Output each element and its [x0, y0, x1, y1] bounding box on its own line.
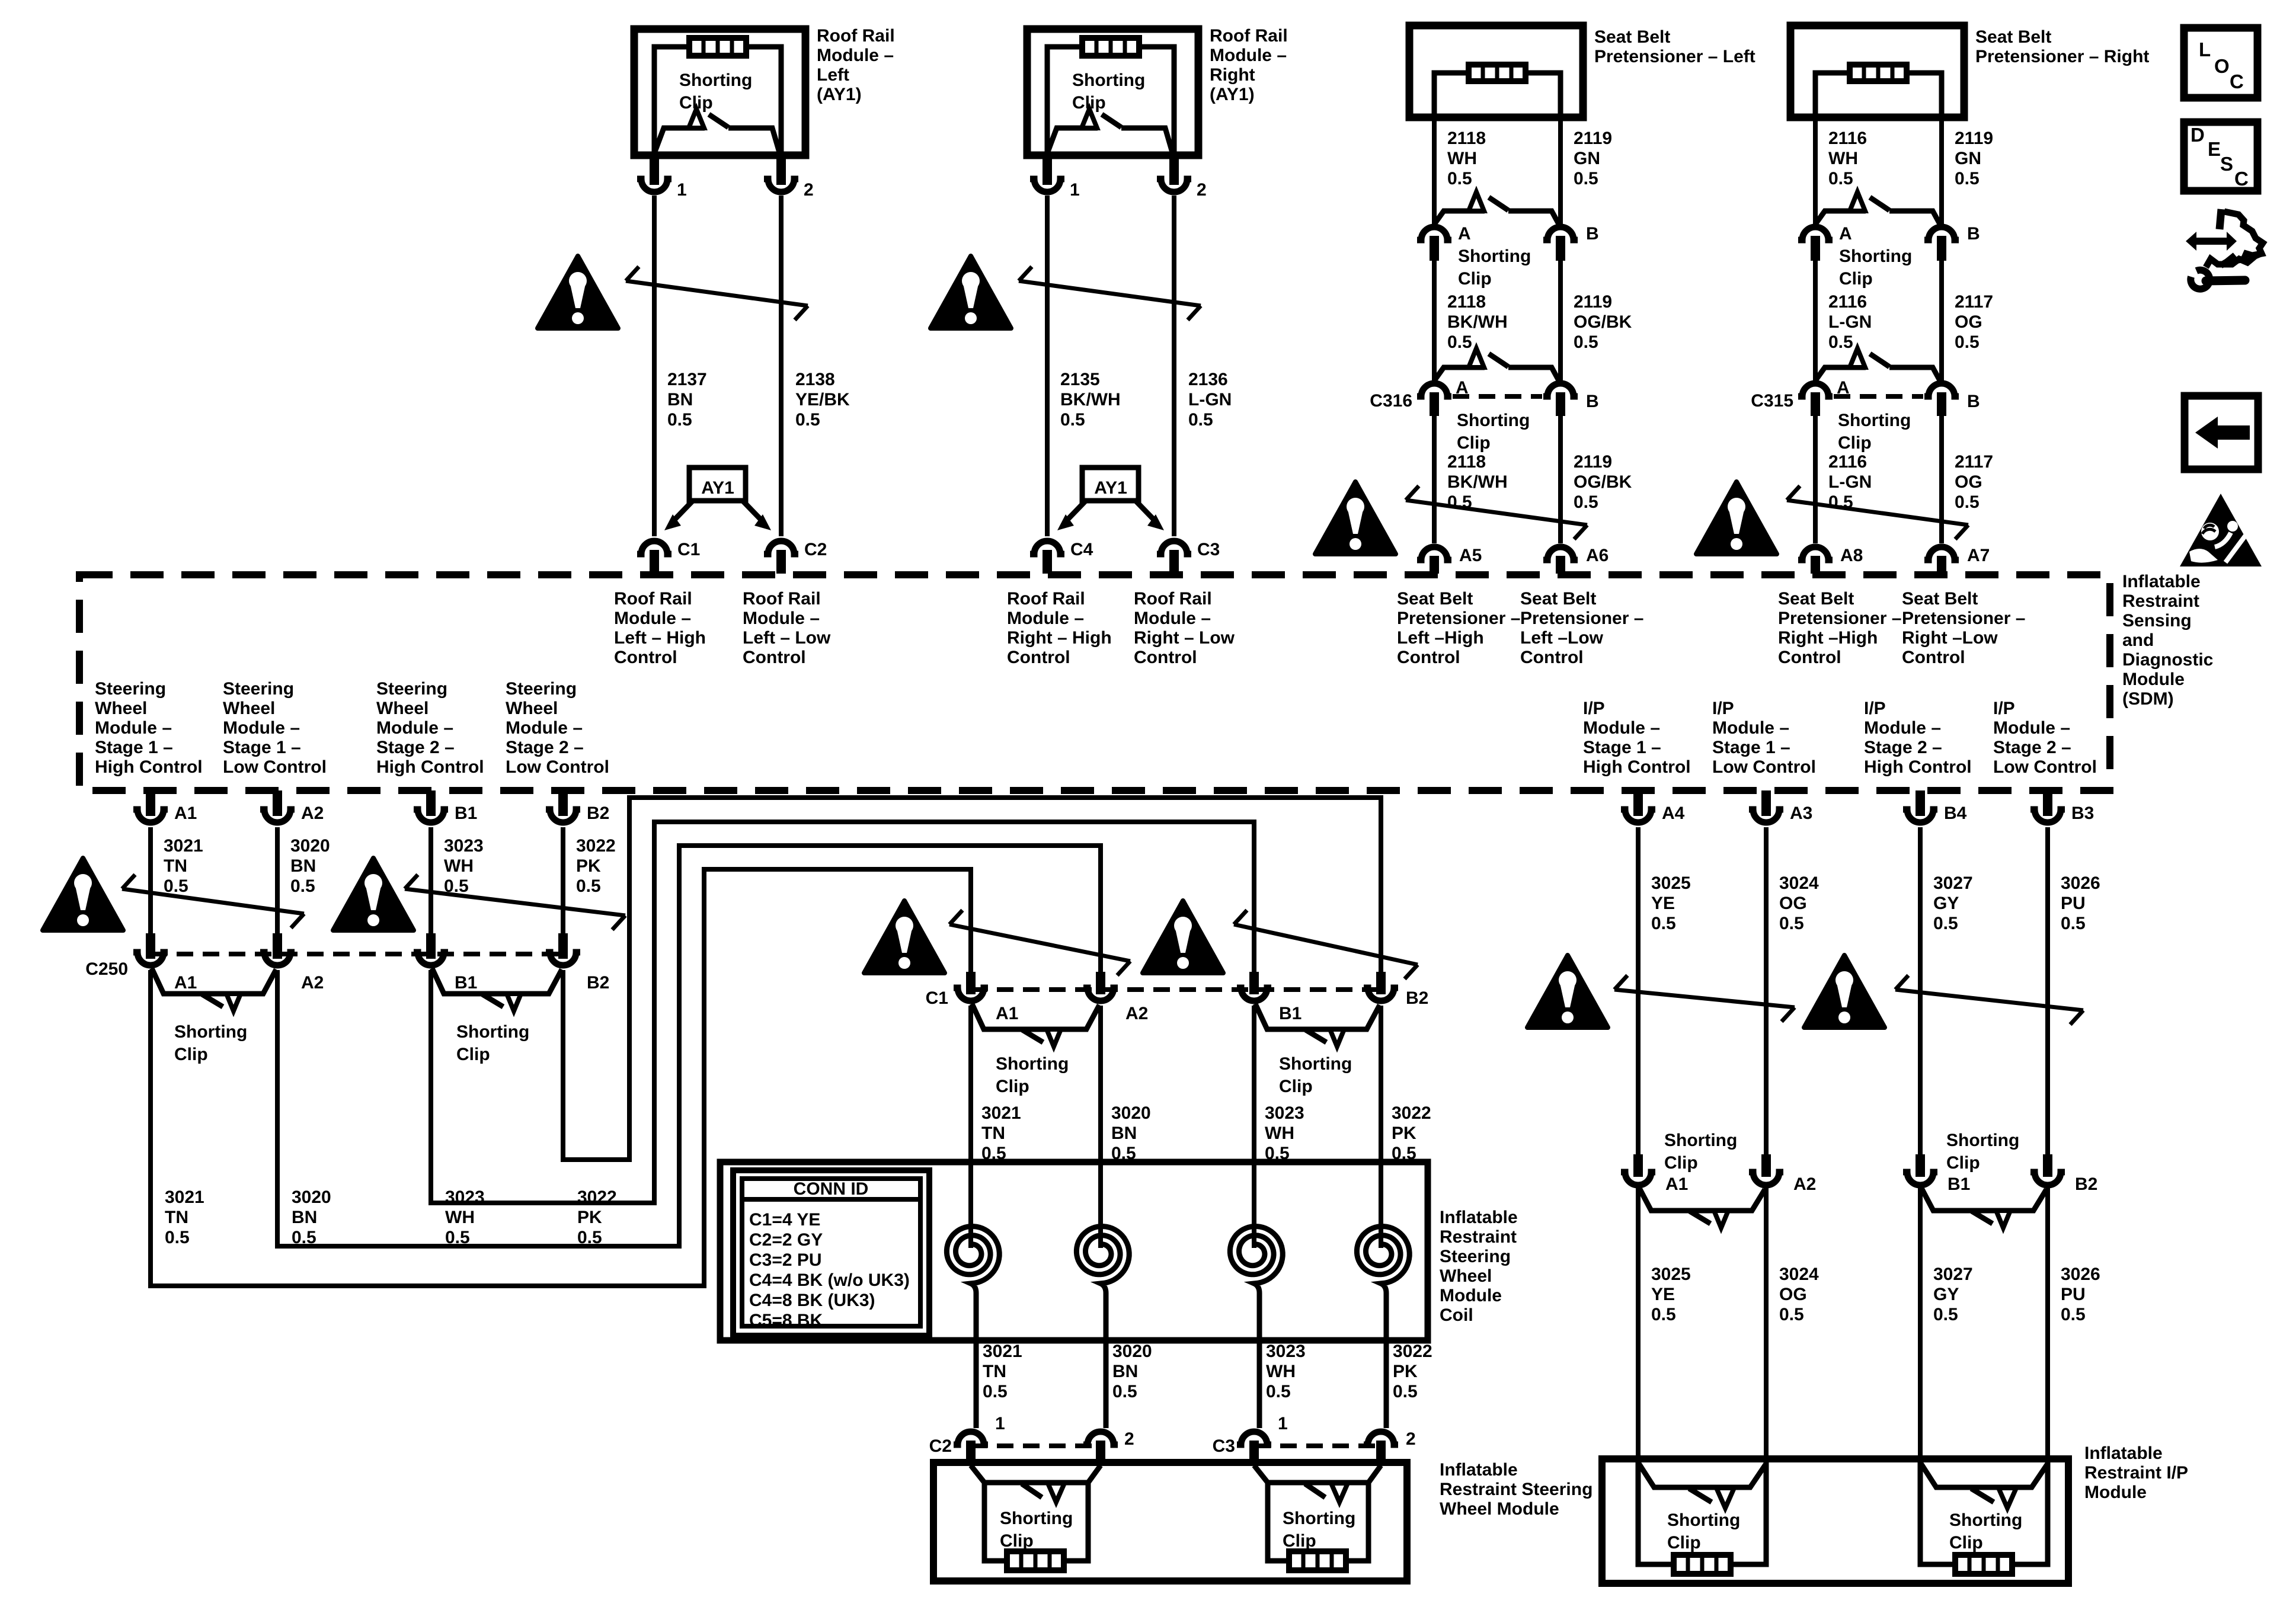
svg-text:0.5: 0.5: [2061, 914, 2086, 933]
svg-text:Steering: Steering: [1440, 1247, 1511, 1266]
svg-text:Shorting: Shorting: [1664, 1131, 1737, 1150]
svg-text:Right –Low: Right –Low: [1902, 628, 1998, 648]
svg-text:A1: A1: [174, 973, 197, 993]
svg-text:S: S: [2220, 153, 2233, 175]
svg-text:B1: B1: [455, 973, 477, 993]
svg-text:C2: C2: [929, 1436, 952, 1456]
svg-text:3021: 3021: [983, 1342, 1022, 1361]
svg-text:Control: Control: [614, 648, 677, 667]
svg-text:3021: 3021: [981, 1103, 1021, 1123]
svg-text:2119: 2119: [1574, 292, 1612, 312]
svg-text:Shorting: Shorting: [174, 1022, 247, 1042]
wire label 3022 below coil: [1393, 1342, 1432, 1449]
svg-text:B: B: [1967, 224, 1980, 244]
svg-text:BN: BN: [667, 390, 693, 409]
svg-text:C250: C250: [85, 959, 128, 979]
svg-text:Module –: Module –: [1993, 718, 2070, 738]
svg-text:Clip: Clip: [1839, 269, 1873, 289]
svg-text:2118: 2118: [1447, 452, 1486, 472]
svg-text:3023: 3023: [1266, 1342, 1306, 1361]
svg-text:Diagnostic: Diagnostic: [2122, 650, 2213, 670]
svg-text:WH: WH: [1828, 149, 1858, 168]
svg-text:B: B: [1967, 392, 1980, 411]
wire label 3020 below C250: [292, 1188, 331, 1247]
wire label 3021 below C250: [165, 1188, 204, 1247]
connector C250 dashed line: [151, 952, 563, 956]
svg-text:C1: C1: [926, 988, 948, 1008]
svg-text:WH: WH: [1447, 149, 1477, 168]
svg-text:2137: 2137: [667, 370, 707, 389]
svg-text:A6: A6: [1586, 546, 1609, 565]
svg-text:3024: 3024: [1779, 873, 1819, 893]
SDM bottom pin B2: [546, 790, 609, 823]
svg-text:B1: B1: [1279, 1004, 1302, 1023]
svg-text:3026: 3026: [2061, 1265, 2100, 1284]
svg-text:B3: B3: [2071, 804, 2094, 823]
svg-text:YE: YE: [1651, 894, 1675, 913]
svg-text:BN: BN: [292, 1208, 317, 1227]
svg-text:Seat Belt: Seat Belt: [1520, 589, 1596, 609]
svg-text:Steering: Steering: [223, 679, 294, 699]
wire 3022 from C1 into coil: [1381, 1006, 1431, 1225]
svg-text:Left – Low: Left – Low: [743, 628, 831, 648]
svg-text:Control: Control: [1902, 648, 1965, 667]
svg-text:0.5: 0.5: [795, 410, 820, 430]
svg-text:C1=4 YE: C1=4 YE: [749, 1210, 820, 1230]
wire 3021 from C1 into coil: [971, 1006, 1021, 1225]
connector cup at steering wheel module pin x=1638: [954, 1432, 988, 1466]
svg-text:B2: B2: [1406, 988, 1428, 1008]
svg-text:1: 1: [1278, 1414, 1288, 1433]
svg-text:B2: B2: [587, 973, 609, 993]
svg-text:Module –: Module –: [1007, 609, 1084, 628]
svg-text:YE: YE: [1651, 1285, 1675, 1304]
svg-text:OG/BK: OG/BK: [1574, 472, 1632, 492]
svg-text:Right – High: Right – High: [1007, 628, 1112, 648]
SDM bottom pin A4: [1621, 790, 1685, 823]
twisted-pair slash steering wheel stage 2: [405, 875, 625, 930]
svg-text:0.5: 0.5: [1574, 492, 1598, 512]
svg-text:Clip: Clip: [1946, 1153, 1980, 1173]
svg-text:3027: 3027: [1933, 1265, 1973, 1284]
svg-text:Seat Belt: Seat Belt: [1975, 27, 2051, 47]
svg-text:Clip: Clip: [174, 1045, 208, 1064]
connector C2 dashed line: [971, 1443, 1101, 1448]
SDM input label at x=3209: [1902, 589, 2025, 667]
svg-text:Wheel: Wheel: [506, 699, 558, 718]
svg-text:A2: A2: [301, 973, 324, 993]
svg-text:Clip: Clip: [1458, 269, 1492, 289]
svg-text:C1: C1: [677, 540, 700, 559]
svg-text:Clip: Clip: [679, 93, 713, 113]
svg-text:Clip: Clip: [1283, 1531, 1316, 1551]
svg-text:2117: 2117: [1955, 292, 1993, 312]
svg-text:Low Control: Low Control: [1712, 757, 1816, 777]
svg-text:High Control: High Control: [95, 757, 203, 777]
wire 3022 from SDM to C250: [558, 827, 616, 959]
wire label 3023 below coil: [1266, 1342, 1306, 1433]
svg-text:Shorting: Shorting: [1072, 71, 1145, 90]
wire 3020 from SDM to C250: [273, 827, 330, 959]
svg-text:Shorting: Shorting: [1838, 411, 1911, 430]
svg-text:Shorting: Shorting: [1949, 1510, 2022, 1530]
wire label 3020 below coil: [1112, 1342, 1152, 1449]
coil 1 spiral: [946, 1221, 999, 1428]
svg-text:2138: 2138: [795, 370, 835, 389]
svg-text:2116: 2116: [1828, 292, 1867, 312]
wire 3020 BN routed from C250 to coil connector: [277, 846, 1105, 1246]
svg-text:C2=2 GY: C2=2 GY: [749, 1230, 823, 1250]
connector C1 pin B2: [1364, 988, 1428, 1008]
svg-text:2118: 2118: [1447, 129, 1486, 148]
SDM output label at x=160: [95, 679, 203, 777]
svg-text:OG: OG: [1955, 312, 1982, 332]
svg-text:I/P: I/P: [1583, 699, 1605, 718]
svg-text:Wheel Module: Wheel Module: [1440, 1499, 1559, 1519]
svg-text:O: O: [2214, 55, 2230, 77]
I/P inline connector pin A2: [1749, 1172, 1816, 1194]
svg-text:0.5: 0.5: [1266, 1382, 1291, 1401]
warning triangle coil C1 pair A: [864, 901, 945, 973]
svg-text:0.5: 0.5: [1447, 169, 1472, 188]
svg-text:0.5: 0.5: [1779, 1305, 1804, 1324]
svg-text:Left –Low: Left –Low: [1520, 628, 1604, 648]
svg-text:Left: Left: [817, 65, 849, 85]
svg-text:GN: GN: [1574, 149, 1600, 168]
svg-text:A5: A5: [1459, 546, 1482, 565]
svg-text:Control: Control: [1397, 648, 1460, 667]
svg-text:Wheel: Wheel: [1440, 1266, 1492, 1286]
svg-text:0.5: 0.5: [1447, 332, 1472, 352]
svg-text:TN: TN: [164, 856, 187, 876]
svg-text:Left – High: Left – High: [614, 628, 706, 648]
svg-text:Pretensioner –: Pretensioner –: [1778, 609, 1901, 628]
icon DESC box: [2184, 122, 2257, 191]
svg-text:Pretensioner –: Pretensioner –: [1397, 609, 1520, 628]
warning triangle I/P stage 2: [1804, 955, 1885, 1028]
shorting clip below I/P pins A1-A2: [1639, 1188, 1765, 1228]
svg-text:Stage 1 –: Stage 1 –: [95, 738, 173, 757]
svg-text:Pretensioner –: Pretensioner –: [1520, 609, 1643, 628]
connector cup at steering wheel module pin x=2116: [1237, 1432, 1271, 1466]
svg-text:Steering: Steering: [95, 679, 166, 699]
warning triangle pretensioner right: [1696, 482, 1777, 554]
wire 3025 from SDM to I/P connector: [1633, 827, 1691, 1177]
SDM input label at x=3000: [1778, 589, 1901, 667]
svg-text:Control: Control: [743, 648, 806, 667]
coil 4 spiral: [1357, 1221, 1409, 1428]
module Roof Rail Left (AY1) with shorting clip and squib: [634, 29, 850, 574]
svg-text:Sensing: Sensing: [2122, 611, 2192, 630]
svg-text:3022: 3022: [1393, 1342, 1432, 1361]
svg-text:BN: BN: [1111, 1124, 1137, 1143]
svg-text:C316: C316: [1370, 391, 1412, 411]
svg-text:B2: B2: [2075, 1174, 2097, 1194]
svg-text:Module –: Module –: [1712, 718, 1789, 738]
wire 3020 from C1 into coil: [1101, 1006, 1151, 1225]
svg-text:Stage 2 –: Stage 2 –: [506, 738, 584, 757]
svg-text:Inflatable: Inflatable: [2084, 1443, 2163, 1463]
svg-text:Inflatable: Inflatable: [1440, 1208, 1518, 1227]
svg-text:OG: OG: [1955, 472, 1982, 492]
warning triangle coil pair B: [1143, 901, 1223, 973]
svg-text:Clip: Clip: [456, 1045, 490, 1064]
icon harness routing with wrench: [2186, 209, 2263, 289]
svg-text:AY1: AY1: [701, 478, 734, 498]
svg-text:3022: 3022: [1392, 1103, 1431, 1123]
svg-text:Right: Right: [1210, 65, 1255, 85]
svg-text:Clip: Clip: [1279, 1077, 1313, 1096]
svg-text:Module –: Module –: [95, 718, 172, 738]
svg-text:3025: 3025: [1651, 873, 1691, 893]
warning triangle roof rail left: [538, 256, 618, 328]
connector C1 pin B1: [1237, 988, 1302, 1023]
svg-text:Low Control: Low Control: [1993, 757, 2097, 777]
Inflatable Restraint Steering Wheel Module Coil box: [720, 1162, 1428, 1340]
svg-text:0.5: 0.5: [1828, 332, 1853, 352]
Inflatable Restraint Steering Wheel Module box: [933, 1462, 1407, 1581]
svg-text:OG/BK: OG/BK: [1574, 312, 1632, 332]
svg-text:C: C: [2234, 168, 2249, 190]
svg-text:Module –: Module –: [376, 718, 453, 738]
steering wheel module stage 1 squib with shorting clip: [971, 1465, 1101, 1570]
svg-text:A2: A2: [1793, 1174, 1816, 1194]
svg-text:C3: C3: [1197, 540, 1220, 559]
svg-text:A4: A4: [1662, 804, 1685, 823]
svg-text:Shorting: Shorting: [679, 71, 752, 90]
svg-text:E: E: [2208, 138, 2221, 160]
SDM bottom pin B4: [1903, 790, 1967, 823]
svg-text:AY1: AY1: [1094, 478, 1127, 498]
svg-text:A: A: [1456, 378, 1469, 398]
svg-text:0.5: 0.5: [1955, 332, 1980, 352]
SDM input label at x=2565: [1520, 589, 1643, 667]
twisted-pair slash coil pair A: [949, 910, 1130, 975]
svg-text:3020: 3020: [290, 836, 330, 856]
module Roof Rail Right (AY1) with shorting clip and squib: [1027, 29, 1232, 574]
SDM input label at x=1913: [1134, 589, 1235, 667]
connector cup at steering wheel module pin x=2330: [1364, 1432, 1398, 1466]
svg-text:C5=8 BK: C5=8 BK: [749, 1311, 823, 1330]
svg-text:0.5: 0.5: [1955, 492, 1980, 512]
SDM input label at x=2357: [1397, 589, 1520, 667]
SDM output label at x=2671: [1583, 699, 1691, 777]
wire 3024 from connector to I/P module: [1766, 1188, 1819, 1459]
label SDM: [2122, 572, 2213, 709]
twisted-pair slash pretensioner right: [1787, 486, 1968, 539]
svg-text:0.5: 0.5: [1188, 410, 1213, 430]
svg-text:GY: GY: [1933, 1285, 1959, 1304]
connector C1 dashed line: [971, 987, 1381, 992]
svg-text:0.5: 0.5: [1574, 332, 1598, 352]
svg-text:Module: Module: [2122, 670, 2185, 689]
svg-text:2135: 2135: [1060, 370, 1100, 389]
svg-text:High Control: High Control: [376, 757, 484, 777]
svg-text:Roof Rail: Roof Rail: [1210, 26, 1288, 46]
svg-text:3022: 3022: [576, 836, 616, 856]
shorting clip below C1 pins A1-A2: [972, 1004, 1099, 1096]
wire label 3023 below C250: [445, 1188, 485, 1247]
svg-text:0.5: 0.5: [1955, 169, 1980, 188]
svg-text:(AY1): (AY1): [1210, 85, 1255, 104]
svg-text:BN: BN: [290, 856, 316, 876]
svg-text:C3=2 PU: C3=2 PU: [749, 1250, 822, 1270]
wire 3023 from SDM to C250: [426, 827, 484, 959]
svg-text:2: 2: [1406, 1429, 1416, 1449]
label Seat Belt Pretensioner - Left: [1594, 27, 1755, 66]
twisted-pair slash pretensioner left: [1406, 486, 1587, 539]
svg-text:C4: C4: [1070, 540, 1093, 559]
svg-text:2119: 2119: [1574, 452, 1612, 472]
SDM output label at x=3145: [1864, 699, 1972, 777]
svg-text:Wheel: Wheel: [376, 699, 428, 718]
svg-text:Module: Module: [2084, 1483, 2147, 1502]
svg-text:0.5: 0.5: [1779, 914, 1804, 933]
svg-text:Roof Rail: Roof Rail: [1134, 589, 1212, 609]
svg-text:Shorting: Shorting: [1458, 247, 1531, 266]
svg-text:and: and: [2122, 630, 2154, 650]
connector C250 pin B2: [546, 952, 609, 993]
svg-text:BK/WH: BK/WH: [1447, 472, 1508, 492]
svg-text:0.5: 0.5: [2061, 1305, 2086, 1324]
svg-text:Module –: Module –: [506, 718, 583, 738]
wire 3027 from connector to I/P module: [1920, 1188, 1973, 1459]
svg-text:B1: B1: [455, 804, 477, 823]
svg-text:Clip: Clip: [1664, 1153, 1698, 1173]
svg-text:2118: 2118: [1447, 292, 1486, 312]
icon back arrow box: [2185, 396, 2258, 469]
svg-text:C: C: [2230, 71, 2244, 92]
label shorting clip I/P pair A: [1664, 1131, 1737, 1173]
svg-text:Stage 1 –: Stage 1 –: [223, 738, 301, 757]
coil 2 spiral: [1076, 1221, 1129, 1428]
shorting clip below C1 pins B1-B2: [1255, 1004, 1380, 1096]
svg-text:L-GN: L-GN: [1828, 312, 1872, 332]
svg-text:BK/WH: BK/WH: [1060, 390, 1121, 409]
SDM bottom pin B3: [2030, 790, 2094, 823]
twisted-pair slash coil pair B: [1234, 910, 1418, 979]
svg-text:0.5: 0.5: [1651, 914, 1676, 933]
svg-text:Control: Control: [1007, 648, 1070, 667]
svg-text:Control: Control: [1520, 648, 1584, 667]
SDM output label at x=376: [223, 679, 327, 777]
svg-text:Wheel: Wheel: [95, 699, 147, 718]
svg-text:C315: C315: [1751, 391, 1793, 411]
label Seat Belt Pretensioner - Right: [1975, 27, 2149, 66]
svg-text:Control: Control: [1134, 648, 1197, 667]
label Inflatable Restraint Steering Wheel Module Coil: [1440, 1208, 1518, 1325]
svg-text:Low Control: Low Control: [506, 757, 609, 777]
svg-text:PK: PK: [1393, 1362, 1418, 1381]
coil 3 spiral: [1230, 1221, 1283, 1428]
svg-text:0.5: 0.5: [1393, 1382, 1418, 1401]
svg-text:Seat Belt: Seat Belt: [1594, 27, 1670, 47]
svg-text:Coil: Coil: [1440, 1305, 1473, 1325]
svg-text:TN: TN: [981, 1124, 1005, 1143]
svg-text:0.5: 0.5: [667, 410, 692, 430]
SDM output label at x=635: [376, 679, 484, 777]
wire 3026 from connector to I/P module: [2048, 1188, 2100, 1459]
svg-text:2116: 2116: [1828, 129, 1867, 148]
svg-text:Module –: Module –: [1864, 718, 1941, 738]
svg-text:A: A: [1837, 378, 1850, 398]
svg-text:Shorting: Shorting: [1283, 1509, 1355, 1528]
svg-text:Stage 2 –: Stage 2 –: [1993, 738, 2071, 757]
label C3: [1213, 1436, 1235, 1456]
svg-text:3020: 3020: [1111, 1103, 1151, 1123]
svg-text:Seat Belt: Seat Belt: [1778, 589, 1854, 609]
svg-text:2: 2: [1197, 180, 1207, 200]
svg-text:Shorting: Shorting: [1457, 411, 1530, 430]
I/P inline connector pin B1: [1903, 1172, 1970, 1194]
svg-text:0.5: 0.5: [576, 876, 601, 896]
svg-text:Stage 1 –: Stage 1 –: [1712, 738, 1790, 757]
wire 3021 from SDM to C250: [146, 827, 203, 959]
svg-text:0.5: 0.5: [1828, 169, 1853, 188]
SDM input label at x=1253: [743, 589, 831, 667]
svg-text:Module –: Module –: [1134, 609, 1211, 628]
wire 3024 from SDM to I/P connector: [1761, 827, 1819, 1177]
svg-text:0.5: 0.5: [290, 876, 315, 896]
wire 3025 from connector to I/P module: [1638, 1188, 1691, 1459]
label C1: [926, 988, 948, 1008]
svg-text:0.5: 0.5: [1933, 1305, 1958, 1324]
svg-text:Shorting: Shorting: [1946, 1131, 2019, 1150]
svg-text:OG: OG: [1779, 1285, 1807, 1304]
svg-text:2136: 2136: [1188, 370, 1228, 389]
I/P inline connector pin B2: [2030, 1172, 2097, 1194]
svg-text:C3: C3: [1213, 1436, 1235, 1456]
svg-text:3025: 3025: [1651, 1265, 1691, 1284]
svg-text:3026: 3026: [2061, 873, 2100, 893]
svg-text:3021: 3021: [164, 836, 203, 856]
svg-text:Module –: Module –: [1583, 718, 1660, 738]
svg-text:BK/WH: BK/WH: [1447, 312, 1508, 332]
connector C1 pin A2: [1083, 988, 1148, 1023]
svg-text:Module –: Module –: [817, 46, 894, 65]
svg-text:Steering: Steering: [506, 679, 577, 699]
svg-text:Shorting: Shorting: [1000, 1509, 1073, 1528]
warning triangle I/P stage 1: [1527, 955, 1608, 1028]
svg-text:Stage 2 –: Stage 2 –: [376, 738, 455, 757]
I/P module stage 1 squib with shorting clip: [1638, 1459, 1766, 1574]
svg-text:3023: 3023: [1265, 1103, 1304, 1123]
label Inflatable Restraint Steering Wheel Module: [1440, 1460, 1593, 1519]
svg-text:A2: A2: [1125, 1004, 1148, 1023]
wire label 3022 below C250: [577, 1188, 617, 1247]
svg-text:3023: 3023: [444, 836, 484, 856]
svg-text:2: 2: [804, 180, 814, 200]
svg-text:Clip: Clip: [1457, 433, 1491, 453]
svg-text:WH: WH: [444, 856, 474, 876]
svg-text:Restraint I/P: Restraint I/P: [2084, 1463, 2188, 1483]
svg-text:0.5: 0.5: [165, 1228, 190, 1247]
svg-text:C4=4 BK (w/o UK3): C4=4 BK (w/o UK3): [749, 1270, 910, 1290]
svg-text:A3: A3: [1790, 804, 1812, 823]
svg-text:Clip: Clip: [1000, 1531, 1034, 1551]
svg-text:Inflatable: Inflatable: [2122, 572, 2201, 591]
shorting clip below I/P pins B1-B2: [1921, 1188, 2046, 1228]
label Inflatable Restraint I/P Module: [2084, 1443, 2188, 1502]
warning triangle steering wheel stage 2: [333, 858, 414, 930]
svg-text:Clip: Clip: [1072, 93, 1106, 113]
Inflatable Restraint I/P Module box: [1602, 1459, 2068, 1583]
svg-text:Stage 1 –: Stage 1 –: [1583, 738, 1661, 757]
twisted-pair slash I/P stage 2: [1895, 975, 2083, 1025]
svg-text:(AY1): (AY1): [817, 85, 862, 104]
svg-text:Clip: Clip: [1949, 1533, 1983, 1553]
label Roof Rail Module - Right (AY1): [1210, 26, 1288, 104]
